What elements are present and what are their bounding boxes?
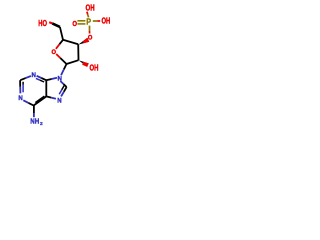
svg-text:P: P [86, 16, 91, 26]
wire C2'-C1' bond [67, 60, 79, 64]
wire N7-C5 bond [51, 98, 56, 99]
wire N1-C6 bond [23, 100, 28, 103]
svg-text:OH: OH [102, 17, 111, 26]
wire N3-C2 bond [26, 76, 31, 78]
wire P-OH right bond [93, 20, 98, 22]
svg-text:OH: OH [86, 3, 95, 12]
wire C4-C5 bond [45, 80, 47, 96]
wedge bond C3'-O(P) [78, 38, 89, 45]
wire C4'-O4' bond [59, 40, 63, 45]
wire C2=N1 double bond [19, 80, 21, 87]
svg-text:N: N [57, 97, 61, 104]
wire C6-NH2 bond [33, 106, 35, 114]
svg-text:N: N [18, 95, 22, 102]
svg-text:NH: NH [30, 117, 39, 126]
svg-text:O: O [52, 49, 57, 56]
svg-text:2: 2 [40, 121, 43, 127]
wire C3'-C2' bond [77, 44, 79, 60]
wire C6=C5 double bond [34, 96, 47, 105]
svg-text:OH: OH [90, 63, 99, 72]
svg-text:O: O [72, 19, 77, 28]
wire C5'-C4' bond [60, 27, 63, 40]
wire C4'-C3' bond [63, 40, 78, 45]
wire HO-C5' bond [49, 22, 52, 23]
wire C4-N9 bond [46, 79, 51, 80]
wire N3=C4 double bond [37, 76, 42, 78]
wire P-O ester bond (down) [89, 26, 91, 31]
wire C8=N7 double bond [64, 87, 67, 92]
wire C1'-N9 bond [64, 64, 67, 70]
wire P-OH top bond [86, 12, 89, 15]
svg-text:N: N [32, 72, 36, 79]
svg-text:HO: HO [38, 19, 47, 28]
wire N9-C8 bond [60, 81, 63, 84]
wire P=O double bond [77, 20, 85, 22]
wire O4'-C1' bond [56, 54, 60, 58]
wedge bond C2'-OH [79, 60, 89, 67]
